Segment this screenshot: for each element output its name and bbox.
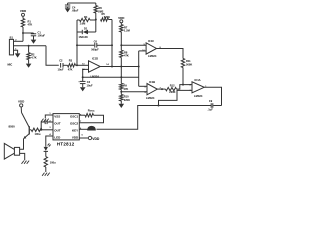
resistor R10	[120, 92, 131, 104]
resistor Rosc	[79, 109, 103, 123]
diode D1	[77, 20, 96, 40]
svg-text:IC1A: IC1A	[195, 78, 201, 82]
resistor R LED	[44, 157, 56, 172]
resistor R8	[120, 45, 129, 77]
wire tap to IC1B +input	[120, 91, 147, 93]
wire R1 to mic	[22, 27, 24, 41]
svg-text:C3: C3	[87, 80, 91, 84]
IC U1 HT2812	[49, 113, 83, 146]
ground mic	[15, 53, 21, 57]
svg-text:D1: D1	[84, 26, 88, 30]
svg-text:100u: 100u	[35, 132, 41, 136]
svg-text:LED: LED	[54, 135, 61, 139]
resistor R11	[181, 59, 192, 85]
ground R10	[119, 104, 125, 108]
wire IC1A +input feedback	[158, 90, 193, 106]
svg-text:R4: R4	[84, 15, 88, 19]
svg-text:VDD: VDD	[72, 135, 79, 139]
wire pin4 to LED	[46, 136, 53, 147]
capacitor C3	[78, 77, 93, 87]
resistor R5	[101, 12, 113, 21]
wire IC1C -input column	[139, 51, 146, 86]
wire top to C4	[68, 2, 96, 4]
svg-text:47K: 47K	[124, 87, 129, 91]
capacitor C6	[77, 40, 113, 52]
svg-text:LM324: LM324	[91, 74, 100, 78]
op-amp IC1C	[142, 39, 161, 58]
speaker LS1	[4, 143, 19, 159]
wire C9 to KEY	[97, 106, 212, 130]
power VDD3	[18, 99, 25, 112]
wire IC1B -input stub	[139, 85, 147, 87]
capacitor C4	[65, 3, 79, 13]
power VDD2	[118, 16, 125, 25]
svg-text:LM324: LM324	[146, 96, 155, 100]
ground C4	[65, 8, 71, 12]
node feedback left / wire to IC1D	[76, 64, 89, 66]
wire R4/D1 left column	[76, 20, 78, 65]
svg-text:VDD: VDD	[92, 137, 100, 141]
capacitor C1	[23, 31, 45, 40]
wire emitter to speaker	[20, 139, 24, 150]
svg-text:10uF: 10uF	[58, 67, 64, 71]
svg-text:560pF: 560pF	[91, 48, 99, 52]
wire pin3 OUT	[40, 129, 53, 131]
ground LED hatch	[42, 173, 50, 176]
svg-text:VDD: VDD	[118, 16, 125, 20]
wire to C2	[46, 46, 59, 66]
svg-text:KEY: KEY	[72, 128, 78, 132]
resistor R4	[77, 15, 96, 25]
capacitor C9	[208, 99, 222, 111]
svg-text:1.6M: 1.6M	[80, 22, 86, 26]
svg-text:500K: 500K	[186, 62, 192, 66]
resistor R3	[68, 58, 76, 71]
svg-text:R12: R12	[170, 84, 175, 88]
svg-text:B1: B1	[10, 36, 14, 40]
svg-text:47K: 47K	[28, 23, 33, 27]
wire bias tap to IC1C	[120, 44, 146, 46]
svg-text:C2: C2	[59, 58, 63, 62]
resistor R1	[21, 19, 32, 28]
microphone B1	[8, 36, 14, 67]
svg-text:VDD: VDD	[18, 99, 25, 103]
svg-text:C6: C6	[94, 40, 98, 44]
wire IC1B output	[157, 88, 165, 90]
svg-text:1.2M: 1.2M	[124, 29, 130, 33]
svg-text:2M2: 2M2	[98, 9, 104, 13]
svg-text:R3: R3	[69, 58, 73, 62]
resistor R7	[120, 25, 130, 46]
svg-text:620K: 620K	[104, 15, 110, 19]
LED D2	[44, 143, 51, 156]
wire pin1 VSS	[45, 115, 53, 118]
svg-text:8050: 8050	[9, 125, 16, 129]
resistor R base 100u	[31, 128, 42, 136]
wire C3 node to IC1B column	[82, 76, 139, 78]
wire signal node	[14, 45, 47, 47]
svg-text:IC1C: IC1C	[148, 39, 154, 43]
svg-text:OUT: OUT	[54, 121, 61, 125]
pushbutton SW	[87, 126, 96, 131]
svg-text:LM324: LM324	[194, 94, 203, 98]
svg-text:LM324: LM324	[148, 54, 157, 58]
svg-text:200K: 200K	[169, 90, 175, 94]
svg-text:OSC2: OSC2	[70, 121, 79, 125]
wire IC1D output row	[100, 66, 140, 68]
capacitor C5 pin2	[41, 120, 53, 130]
resistor R6	[94, 3, 104, 21]
wire IC1A output	[204, 87, 221, 105]
wire mic pin1 to ground	[14, 49, 18, 54]
wire IC1C output to R11	[157, 49, 184, 59]
svg-text:10uF: 10uF	[87, 84, 93, 88]
capacitor C2	[58, 58, 68, 71]
transistor Q1 8050	[9, 113, 32, 139]
svg-text:47K: 47K	[68, 67, 73, 71]
power VDD1	[20, 9, 27, 19]
svg-text:VDD: VDD	[20, 9, 27, 13]
svg-text:100u: 100u	[50, 160, 56, 164]
wire feedback column	[111, 20, 113, 67]
svg-text:4.7K: 4.7K	[31, 56, 37, 60]
svg-text:OSC1: OSC1	[70, 115, 79, 119]
svg-text:.68uF: .68uF	[72, 9, 79, 13]
resistor R12	[166, 84, 193, 94]
svg-text:Rosc: Rosc	[88, 109, 95, 113]
ground VSS hatch	[41, 119, 49, 122]
svg-text:IC1D: IC1D	[92, 56, 98, 60]
power VDD4 terminal	[79, 136, 100, 141]
ground R2	[26, 64, 32, 68]
wire KEY pin stub	[79, 128, 87, 130]
wire mic pin2	[14, 40, 24, 42]
ground C1	[31, 40, 37, 44]
op-amp IC1B	[144, 80, 161, 100]
wire IC1D +input / C3 node	[83, 69, 89, 77]
svg-text:47K: 47K	[124, 54, 129, 58]
ground speaker hatch	[22, 161, 30, 164]
svg-text:OUT: OUT	[54, 128, 61, 132]
svg-text:100uF: 100uF	[38, 34, 46, 38]
resistor R9	[120, 77, 129, 91]
svg-text:.1uF: .1uF	[208, 108, 214, 112]
wire speaker bottom to ground	[20, 153, 25, 160]
svg-text:220K: 220K	[124, 98, 130, 102]
svg-text:HT2812: HT2812	[57, 142, 75, 147]
svg-text:VSS: VSS	[54, 115, 60, 119]
svg-text:C9: C9	[209, 99, 213, 103]
svg-text:IC1B: IC1B	[149, 80, 155, 84]
op-amp IC1D	[82, 56, 109, 78]
resistor R2	[27, 46, 37, 64]
svg-text:1N4148: 1N4148	[79, 35, 89, 39]
svg-text:MIC: MIC	[8, 63, 13, 67]
op-amp IC1A	[189, 78, 207, 98]
ground C3	[80, 87, 86, 91]
